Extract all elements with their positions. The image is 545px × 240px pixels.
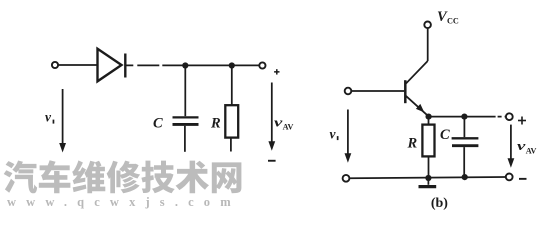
svg-text:v: v	[517, 138, 526, 153]
svg-text:(b): (b)	[431, 196, 448, 211]
svg-text:R: R	[210, 116, 221, 132]
svg-text:v: v	[330, 127, 337, 142]
svg-text:C: C	[153, 116, 163, 132]
svg-text:AV: AV	[283, 123, 294, 132]
svg-text:v: v	[45, 109, 52, 124]
svg-text:C: C	[440, 127, 450, 143]
svg-text:www.qcwxjs.com: www.qcwxjs.com	[7, 195, 241, 209]
svg-text:AV: AV	[526, 146, 537, 155]
svg-text:R: R	[406, 136, 417, 152]
svg-text:CC: CC	[447, 17, 459, 26]
svg-text:v: v	[274, 114, 283, 129]
